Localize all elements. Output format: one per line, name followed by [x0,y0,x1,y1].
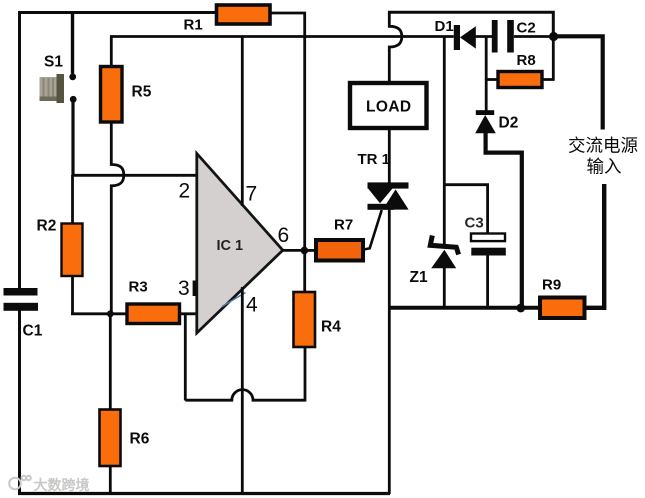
wire branch down from R3 rail at x=185 [184,314,187,401]
capacitor C2 left plate [492,20,498,53]
wire top-right to AC line [553,36,602,129]
svg-text:R8: R8 [517,52,536,69]
diode D1 triangle (pointing left) [460,26,476,48]
wire R5 bottom down with hop over pin-2 wire, to node at R3 rail [111,122,124,314]
wire D1 to C2 [476,35,493,38]
wire R7 left stub from node [304,249,316,252]
wire bottom-right rail from triac line to R9 [389,306,539,310]
triac TR1 bottom bar [368,204,395,210]
svg-text:TR 1: TR 1 [358,151,391,168]
wire pin 6 from apex to node [282,249,305,252]
capacitor C3 bottom plate [471,248,506,256]
wire D2 anode run down-right-down to bottom-right rail (thick) [486,133,522,306]
capacitor C1 top plate [4,288,38,296]
wire triac main lead down to bottom rail [388,210,391,495]
wire top-right horizontal run and drop to C2 node [388,12,553,36]
wire R2 bottom lead to R3 rail [71,276,74,315]
svg-text:2: 2 [179,180,191,203]
svg-text:大数跨境: 大数跨境 [34,477,90,493]
svg-text:R4: R4 [321,319,341,336]
wire Z1 branch vertical from 36-rail down to zener [443,36,446,246]
triac TR1 left triangle (down) [368,188,393,203]
wire triac gate lead diagonal [364,210,382,250]
resistor R8 [498,72,542,88]
resistor R1 [217,5,271,24]
op-amp IC1 body [197,154,283,334]
wire left rail vertical upper (to C1 top plate) [18,11,21,289]
node pin6 / R7 / R4 junction [301,247,309,255]
diode D1 cathode bar [454,25,460,50]
wire LOAD top lead with hop over 36-rail, joining top-right run [389,12,402,84]
watermark logo [9,476,31,490]
svg-text:R6: R6 [130,431,150,448]
svg-text:S1: S1 [44,54,63,71]
wire bottom rail [18,492,390,495]
artifact blue tick near pin 4 [222,293,246,307]
resistor R6 [100,410,121,467]
triac TR1 right triangle (up) [383,189,409,209]
svg-text:R5: R5 [132,84,152,101]
wire left rail vertical lower (C1 bottom to bottom rail) [18,310,21,494]
wire R1 right to corner and down to node at pin 6 [271,13,305,248]
wire C2 right to node [514,35,554,38]
svg-text:6: 6 [278,224,290,247]
wire Z1 bottom lead to rail [443,268,446,309]
zener Z1 triangle [431,250,456,268]
svg-text:R7: R7 [334,217,353,234]
node junction R5-line on R3 rail [107,310,114,317]
wire R3 rail left segment (R2 to R3) [71,312,127,315]
diode D2 triangle (pointing up) [475,115,496,133]
wire R3 right to IC pin 3 [180,312,197,315]
node C2/R8/top-right junction [549,32,558,41]
wire R6 bottom lead [109,466,112,494]
svg-text:输入: 输入 [587,157,622,177]
resistor R5 [101,67,123,123]
wire y=400 run with hop over pin-4 line, to R4 bottom leg [185,390,305,401]
svg-text:R1: R1 [184,17,203,34]
svg-text:D1: D1 [435,18,454,35]
wire R4 top lead from node [303,250,306,292]
resistor R9 [540,298,585,319]
wire R4 bottom leg up [304,347,307,402]
svg-text:3: 3 [178,277,190,300]
node S1 upper terminal [69,73,76,80]
capacitor C1 bottom plate [4,303,39,311]
wire R2 top lead [71,175,74,225]
resistor R4 [294,292,316,347]
svg-text:IC 1: IC 1 [217,238,244,254]
wire S1 top lead [71,11,74,74]
wire Z1/C3 top tie and C3 drop [444,185,487,234]
svg-text:C1: C1 [23,323,43,340]
node S1 lower terminal [70,96,77,103]
wire R8 right stub and riser to node [542,37,553,80]
wire R8 left stub [486,78,497,81]
triac TR1 top bar [368,182,409,188]
wire R6 line: R3 rail node down through R6 to bottom rail [109,314,112,410]
load box [350,83,427,128]
wire R8 branch down from 36-rail [485,37,488,81]
wire D2 top lead from R8 junction [485,80,488,112]
resistor R2 [62,224,83,277]
svg-text:R2: R2 [37,218,57,235]
svg-text:Z1: Z1 [410,269,428,286]
zener Z1 cathode bar (bent) [430,236,458,255]
wire pin 7 vertical from 36-rail to IC top edge [241,36,244,206]
node D2 line on rail [516,304,525,313]
svg-text:D2: D2 [499,115,519,132]
svg-text:C3: C3 [465,215,484,232]
wire R5 top stub up to 36-rail [110,36,113,67]
resistor R7 [316,240,363,261]
wire C3 bottom lead to rail [486,256,489,310]
svg-text:C2: C2 [517,20,536,37]
switch S1 body [40,74,65,103]
capacitor C3 top plate (hollow) [471,234,505,242]
wire AC line lower segment down to R9 rail [586,184,605,308]
wire S1 lower lead down to pin-2 branch [71,102,74,176]
resistor R3 [127,304,180,324]
wire pin 2 horizontal from S1/R2 branch to IC left edge [72,174,197,177]
capacitor C2 right plate [507,20,514,53]
svg-text:R3: R3 [129,279,148,296]
wire pin 4 vertical from IC bottom edge to bottom rail [241,287,244,494]
svg-text:LOAD: LOAD [366,99,412,116]
pin 3 stub bar on IC left edge [193,281,197,297]
svg-text:4: 4 [246,294,258,317]
svg-text:7: 7 [246,183,258,206]
svg-text:交流电源: 交流电源 [568,136,638,156]
wire top-left horizontal from left rail to R1 [18,11,215,14]
svg-text:R9: R9 [542,277,561,294]
wire horizontal 36-rail from R5 to D1 [110,35,454,38]
wire LOAD bottom lead to triac [388,128,391,183]
diode D2 cathode bar [476,110,494,115]
